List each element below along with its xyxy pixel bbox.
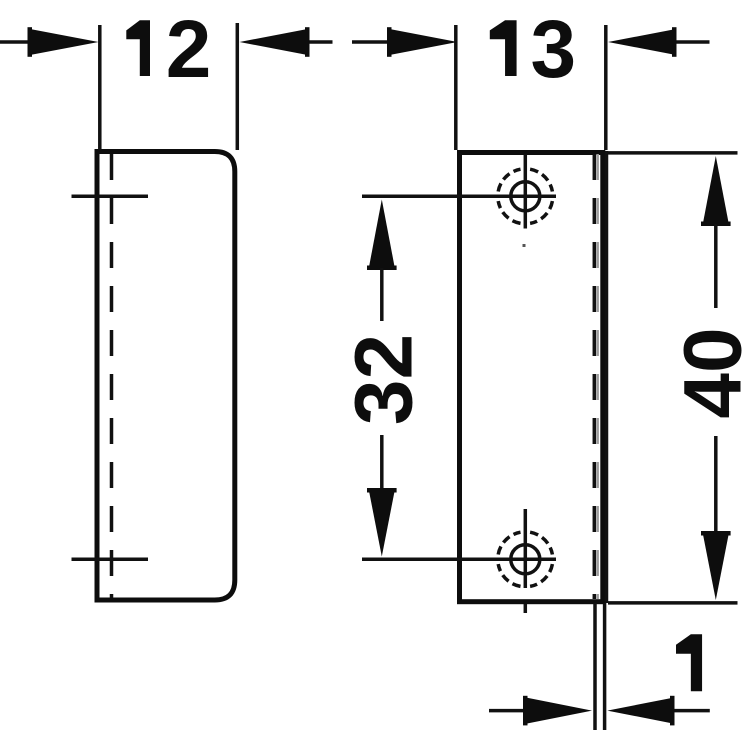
bend dashed line (front view) xyxy=(593,154,597,599)
dim 12 right arrow xyxy=(240,27,333,57)
dim 12 left extension line xyxy=(98,25,102,150)
dim 13 left extension line xyxy=(454,25,458,150)
dim 1 label xyxy=(676,634,702,691)
bottom hole centerline tick (side view) xyxy=(72,558,149,562)
part body front view outline xyxy=(460,153,603,602)
svg-text:2: 2 xyxy=(166,4,212,95)
top hole circle xyxy=(511,182,540,211)
dim 40 bottom extension line xyxy=(608,601,738,605)
stray dot xyxy=(523,244,526,247)
dim 13 right arrow xyxy=(608,27,710,57)
svg-text:3: 3 xyxy=(530,4,576,95)
dim 12 label xyxy=(126,20,150,76)
dim 1 right arrow xyxy=(607,696,710,726)
dim 32 label (rotated) xyxy=(339,334,430,425)
dim 40 label (rotated) xyxy=(668,327,756,418)
bottom hole countersink dashed arcs xyxy=(498,532,552,586)
dim 32 dimension line upper segment with up arrow xyxy=(367,200,397,322)
dim 40 dimension line upper segment with up arrow xyxy=(701,156,731,308)
dim 32 dimension line lower segment with down arrow xyxy=(367,435,397,557)
dim 13 right extension line xyxy=(604,25,608,150)
top hole countersink dashed arcs xyxy=(498,169,552,223)
bottom hole circle xyxy=(511,545,540,574)
dim 13 left arrow xyxy=(352,27,458,57)
dim 1 left witness line xyxy=(593,603,597,730)
dim 12 right extension line xyxy=(236,23,240,150)
svg-text:40: 40 xyxy=(668,327,756,418)
top hole vertical centerline xyxy=(524,154,528,229)
bend dashed line grey fringe xyxy=(596,154,599,599)
bottom hole vertical centerline xyxy=(524,509,528,588)
bottom hole horizontal centerline xyxy=(362,558,556,562)
bottom hole centerline overshoot below part xyxy=(524,604,528,613)
dim 40 dimension line lower segment with down arrow xyxy=(701,436,731,600)
dim 40 top extension line xyxy=(608,151,738,155)
dim 1 left arrow xyxy=(489,696,592,726)
top hole horizontal centerline xyxy=(362,195,556,199)
top hole centerline tick (side view) xyxy=(72,195,149,199)
dim 13 label xyxy=(490,20,517,76)
part body side view outline xyxy=(97,152,235,601)
dim 12 left arrow xyxy=(0,27,99,57)
dim 1 right witness line xyxy=(603,603,607,730)
hidden edge dashed line (side view) xyxy=(110,154,114,598)
front view right edge extra thickness xyxy=(605,151,609,603)
svg-text:32: 32 xyxy=(339,334,430,425)
